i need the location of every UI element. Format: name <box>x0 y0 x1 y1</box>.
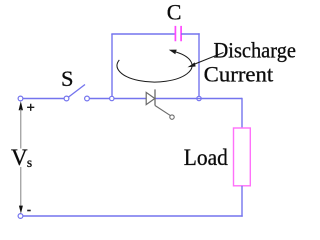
thyristor triangle <box>146 92 155 104</box>
svg-text:C: C <box>167 0 182 24</box>
wire: loop top left segment to capacitor <box>111 33 175 35</box>
node: left negative terminal circle <box>18 214 23 219</box>
node: junction circle at loop right bottom <box>197 96 201 100</box>
thyristor cathode bar <box>154 89 156 105</box>
wire: main horizontal left segment (node to switch) <box>23 98 64 100</box>
node: left positive terminal circle <box>18 96 23 101</box>
Vs arrow shaft upper <box>20 109 22 149</box>
switch S blade <box>69 85 85 98</box>
wire: capacitor to loop top right corner <box>181 33 200 35</box>
wire: loop right vertical <box>198 33 200 96</box>
node: junction circle at loop left bottom <box>110 96 114 100</box>
wire: right vertical bottom (load to bottom corner) <box>241 186 243 217</box>
plus sign <box>27 104 34 111</box>
svg-text:Current: Current <box>204 61 274 86</box>
Vs arrow bottom arrowhead <box>19 206 23 214</box>
wire: loop left vertical <box>111 34 113 96</box>
wire: bottom horizontal <box>23 215 243 217</box>
Vs arrow top arrowhead <box>19 101 23 110</box>
svg-text:Discharge: Discharge <box>214 37 297 62</box>
callout line from Discharge text <box>194 53 224 65</box>
thyristor gate wire <box>155 106 170 116</box>
discharge current arc <box>117 52 192 82</box>
thyristor gate terminal circle <box>170 115 174 119</box>
svg-text:Load: Load <box>184 145 228 170</box>
wire: switch to thyristor anode <box>89 98 146 100</box>
svg-text:S: S <box>61 66 74 91</box>
wire: thyristor cathode to right corner <box>155 98 242 100</box>
wire: right vertical top (corner to load) <box>241 98 243 128</box>
switch S right contact circle <box>85 96 90 101</box>
Vs arrow shaft lower <box>20 167 22 206</box>
capacitor C plates <box>175 26 181 41</box>
discharge current arc arrowhead <box>169 50 177 55</box>
callout arrowhead <box>188 62 196 67</box>
load resistor rectangle <box>234 128 251 186</box>
minus sign <box>27 210 31 212</box>
svg-text:Vs: Vs <box>11 145 32 170</box>
switch S left contact circle <box>64 96 69 101</box>
